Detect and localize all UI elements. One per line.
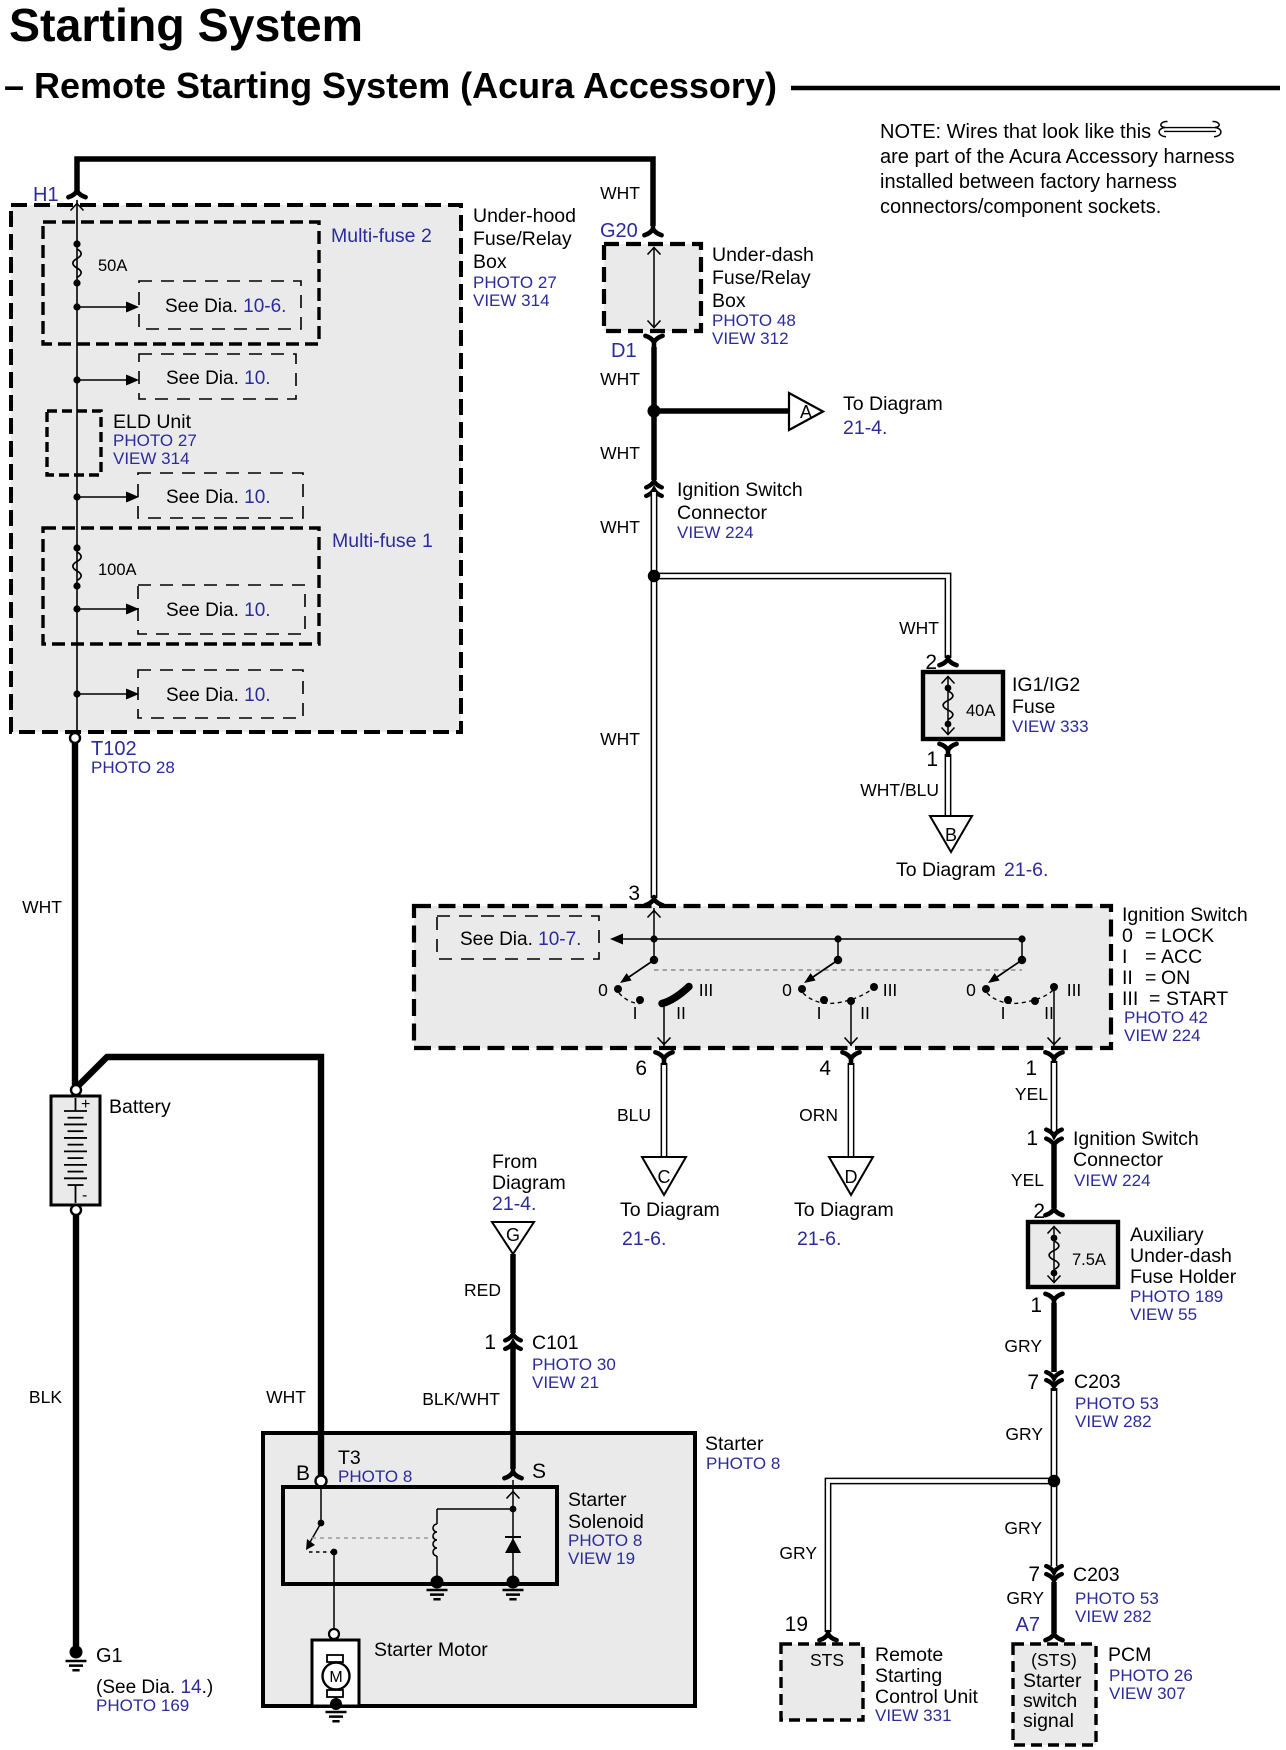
svg-text:VIEW 55: VIEW 55: [1130, 1305, 1197, 1324]
svg-text:I: I: [1001, 1003, 1006, 1023]
svg-text:C203: C203: [1074, 1371, 1121, 1393]
svg-text:Starter Motor: Starter Motor: [374, 1639, 488, 1661]
node: branch to dia 10 (fifth): [73, 690, 80, 697]
svg-text:Ignition Switch: Ignition Switch: [1122, 904, 1248, 926]
svg-text:II: II: [676, 1003, 686, 1023]
svg-text:STS: STS: [810, 1650, 844, 1670]
svg-text:S: S: [532, 1460, 546, 1483]
svg-text:Fuse/Relay: Fuse/Relay: [712, 267, 811, 289]
svg-text:Starting System: Starting System: [9, 0, 363, 51]
battery + terminal: [71, 1085, 81, 1095]
wire: fuse to triangle B (WHT/BLU): [945, 754, 952, 816]
wire: C203 to junction (GRY): [1051, 1388, 1058, 1481]
node: GRY junction: [1048, 1475, 1060, 1487]
connector G20: [644, 227, 661, 235]
svg-text:GRY: GRY: [779, 1543, 817, 1563]
svg-text:Control Unit: Control Unit: [875, 1686, 979, 1708]
note wire sample symbol: [1159, 122, 1221, 137]
svg-text:Connector: Connector: [1073, 1149, 1163, 1171]
svg-text:connectors/component sockets.: connectors/component sockets.: [880, 196, 1161, 218]
svg-text:VIEW 19: VIEW 19: [568, 1549, 635, 1568]
svg-text:I: I: [817, 1003, 822, 1023]
svg-text:RED: RED: [464, 1280, 501, 1300]
svg-text:1: 1: [1030, 1294, 1042, 1317]
see dia 10 box (fourth): [138, 585, 305, 634]
under-dash fuse/relay box: [604, 244, 701, 331]
see dia 10-7 box: [437, 916, 599, 959]
svg-text:– Remote Starting System (Acur: – Remote Starting System (Acura Accessor…: [4, 65, 777, 106]
svg-text:Box: Box: [473, 251, 507, 273]
svg-text:VIEW 282: VIEW 282: [1075, 1412, 1152, 1431]
node: branch to dia 10-6: [73, 303, 80, 310]
svg-text:I: I: [633, 1003, 638, 1023]
svg-text:II=ON: II=ON: [1122, 967, 1190, 989]
svg-text:VIEW 314: VIEW 314: [113, 449, 190, 468]
wire: switch2 output to pin 4: [850, 1004, 852, 1046]
svg-text:Battery: Battery: [109, 1096, 171, 1118]
terminal T102: [70, 733, 80, 743]
svg-text:0: 0: [782, 980, 792, 1000]
svg-text:1: 1: [1025, 1057, 1037, 1080]
wire: aux fuse to C203 (GRY): [1051, 1303, 1057, 1372]
mechanical link dashed line: [654, 969, 1022, 971]
svg-text:Ignition Switch: Ignition Switch: [1073, 1128, 1199, 1150]
svg-text:Fuse: Fuse: [1012, 696, 1055, 718]
svg-text:To Diagram: To Diagram: [843, 393, 943, 415]
svg-text:C203: C203: [1073, 1564, 1120, 1586]
svg-text:0: 0: [966, 980, 976, 1000]
svg-text:PHOTO 8: PHOTO 8: [568, 1531, 642, 1550]
svg-text:ELD Unit: ELD Unit: [113, 411, 192, 433]
svg-text:1: 1: [484, 1331, 496, 1354]
svg-text:See Dia. 10-6.: See Dia. 10-6.: [165, 296, 286, 317]
svg-text:19: 19: [785, 1613, 808, 1636]
connector fuse pin 2: [939, 657, 956, 665]
node: branch to dia 10 (third): [73, 493, 80, 500]
svg-text:III=START: III=START: [1122, 988, 1228, 1010]
svg-text:D: D: [845, 1167, 858, 1187]
svg-text:VIEW 224: VIEW 224: [677, 523, 754, 542]
svg-text:See Dia. 10.: See Dia. 10.: [166, 685, 271, 706]
see dia 10 box (third): [138, 473, 303, 518]
svg-text:Box: Box: [712, 290, 746, 312]
wire: switch3 output to pin 1: [1053, 990, 1055, 1046]
switch wafer 3: [966, 956, 1081, 1023]
svg-text:VIEW 282: VIEW 282: [1075, 1607, 1152, 1626]
svg-text:VIEW 21: VIEW 21: [532, 1373, 599, 1392]
switch wafer 1: [598, 939, 1022, 1023]
svg-text:PHOTO 28: PHOTO 28: [91, 758, 175, 777]
wire: main feed inside box: [76, 200, 78, 734]
svg-text:PCM: PCM: [1108, 1644, 1151, 1666]
IG1/IG2 fuse box: [923, 672, 1003, 739]
svg-text:40A: 40A: [966, 702, 995, 720]
svg-text:III: III: [699, 980, 714, 1000]
svg-text:To Diagram: To Diagram: [794, 1199, 894, 1221]
ground: starter motor: [330, 1698, 342, 1710]
svg-text:Under-dash: Under-dash: [1130, 1245, 1232, 1267]
svg-text:WHT: WHT: [600, 443, 640, 463]
svg-text:6: 6: [635, 1057, 647, 1080]
svg-text:See Dia. 10.: See Dia. 10.: [166, 600, 271, 621]
svg-text:PHOTO 30: PHOTO 30: [532, 1355, 616, 1374]
svg-text:T102: T102: [91, 738, 137, 760]
wire: pin1 to ignition switch connector (YEL): [1051, 1061, 1058, 1134]
svg-text:G1: G1: [96, 1645, 123, 1667]
svg-text:WHT: WHT: [600, 517, 640, 537]
svg-text:See Dia. 10-7.: See Dia. 10-7.: [460, 929, 581, 950]
svg-text:VIEW 333: VIEW 333: [1012, 717, 1089, 736]
svg-text:PHOTO 42: PHOTO 42: [1124, 1008, 1208, 1027]
node: rail dot sw1: [650, 935, 657, 942]
auxiliary under-dash fuse holder box: [1028, 1222, 1118, 1287]
wire: switch1 output to pin 6: [663, 1004, 665, 1046]
svg-text:100A: 100A: [98, 561, 137, 579]
wire: G to C101 (RED): [510, 1254, 516, 1333]
svg-text:Multi-fuse 1: Multi-fuse 1: [332, 530, 433, 552]
svg-text:7: 7: [1027, 1371, 1039, 1394]
terminal S: [510, 1433, 516, 1469]
svg-text:A7: A7: [1016, 1614, 1040, 1636]
triangle A (to diagram 21-4): [789, 393, 823, 430]
svg-text:1: 1: [1026, 1127, 1038, 1150]
svg-text:G: G: [506, 1225, 520, 1245]
svg-text:BLK: BLK: [29, 1387, 62, 1407]
solenoid S branch: [512, 1480, 514, 1580]
svg-text:To Diagram: To Diagram: [896, 859, 996, 881]
fuse 50A: [73, 240, 80, 247]
wire: branch to triangle A: [654, 408, 789, 414]
svg-text:G20: G20: [600, 220, 638, 242]
wire: battery to G1 (BLK): [73, 1215, 79, 1648]
ignition switch connector (inline): [646, 481, 662, 487]
svg-text:III: III: [1067, 980, 1082, 1000]
svg-text:PHOTO 26: PHOTO 26: [1109, 1666, 1193, 1685]
svg-text:installed between factory harn: installed between factory harness: [880, 171, 1177, 193]
node: branch to dia 10 (fourth): [73, 605, 80, 612]
triangle D (to diagram 21-6): [829, 1157, 873, 1195]
starter motor: [327, 1655, 343, 1662]
svg-text:Starter: Starter: [1023, 1670, 1082, 1692]
wire: pin3 entry into switch: [653, 908, 655, 960]
svg-text:C: C: [658, 1167, 671, 1187]
svg-text:VIEW 307: VIEW 307: [1109, 1684, 1186, 1703]
svg-text:PHOTO 27: PHOTO 27: [113, 431, 197, 450]
svg-text:PHOTO 53: PHOTO 53: [1075, 1589, 1159, 1608]
wire: battery+ branch to starter B (WHT): [77, 1057, 321, 1476]
battery - terminal: [71, 1205, 81, 1215]
ground G1: [70, 1646, 83, 1659]
connector fuse pin 1: [939, 744, 956, 756]
ignition switch box: [414, 906, 1111, 1048]
node: harness junction: [648, 570, 660, 582]
starter box: [263, 1433, 695, 1706]
switch wafer 2: [782, 956, 897, 1023]
svg-text:7.5A: 7.5A: [1072, 1251, 1106, 1269]
svg-text:NOTE: Wires that look like thi: NOTE: Wires that look like this: [880, 121, 1151, 143]
svg-text:0: 0: [598, 980, 608, 1000]
svg-text:are part of the Acura Accessor: are part of the Acura Accessory harness: [880, 146, 1235, 168]
ground: diode: [507, 1576, 520, 1589]
svg-text:GRY: GRY: [1004, 1518, 1042, 1538]
svg-text:switch: switch: [1023, 1690, 1077, 1712]
node: junction at A branch: [648, 405, 661, 418]
svg-text:A: A: [800, 402, 812, 422]
svg-text:GRY: GRY: [1004, 1336, 1042, 1356]
wire: T102 to battery (WHT): [72, 743, 78, 1085]
svg-text:21-4.: 21-4.: [492, 1193, 536, 1215]
svg-text:Multi-fuse 2: Multi-fuse 2: [331, 225, 432, 247]
svg-text:PHOTO 27: PHOTO 27: [473, 273, 557, 292]
node: rail dot sw2: [834, 935, 841, 942]
svg-text:PHOTO 53: PHOTO 53: [1075, 1394, 1159, 1413]
svg-text:Solenoid: Solenoid: [568, 1511, 644, 1533]
svg-text:21-6.: 21-6.: [797, 1228, 841, 1250]
svg-text:PHOTO 8: PHOTO 8: [338, 1467, 412, 1486]
svg-text:WHT: WHT: [266, 1387, 306, 1407]
svg-text:C101: C101: [532, 1332, 579, 1354]
ground: coil: [431, 1576, 444, 1589]
svg-text:WHT: WHT: [22, 897, 62, 917]
PCM box: [1013, 1644, 1096, 1745]
svg-text:Starter: Starter: [568, 1489, 627, 1511]
svg-text:IG1/IG2: IG1/IG2: [1012, 674, 1080, 696]
svg-text:II: II: [1044, 1003, 1054, 1023]
svg-text:Auxiliary: Auxiliary: [1130, 1224, 1204, 1246]
svg-text:M: M: [329, 1669, 342, 1686]
svg-text:+: +: [81, 1096, 90, 1113]
svg-text:-: -: [82, 1187, 87, 1204]
triangle C (to diagram 21-6): [642, 1157, 686, 1195]
svg-text:YEL: YEL: [1015, 1084, 1048, 1104]
svg-text:VIEW 331: VIEW 331: [875, 1706, 952, 1725]
mechanical link dashed (solenoid): [312, 1537, 433, 1539]
svg-text:1: 1: [926, 748, 938, 771]
svg-text:D1: D1: [611, 340, 637, 362]
wire: pin6 to triangle C (BLU): [661, 1063, 668, 1157]
svg-text:Under-dash: Under-dash: [712, 244, 814, 266]
svg-text:H1: H1: [33, 184, 59, 206]
header rule: [791, 86, 1280, 91]
svg-text:Fuse/Relay: Fuse/Relay: [473, 228, 572, 250]
wire: switch feed rail with arrow to see dia 10-7: [620, 938, 1022, 940]
svg-text:Under-hood: Under-hood: [473, 205, 576, 227]
svg-text:Connector: Connector: [677, 502, 767, 524]
see dia 10 box (second): [139, 354, 296, 399]
svg-text:WHT: WHT: [600, 369, 640, 389]
under-hood fuse/relay box: [11, 205, 461, 732]
svg-text:BLK/WHT: BLK/WHT: [422, 1389, 500, 1409]
svg-text:Ignition Switch: Ignition Switch: [677, 479, 803, 501]
starter solenoid box: [283, 1487, 557, 1584]
triangle B (to diagram 21-6): [930, 816, 972, 852]
solenoid contact from B: [320, 1487, 322, 1522]
svg-text:WHT: WHT: [600, 729, 640, 749]
svg-text:50A: 50A: [98, 257, 127, 275]
svg-text:Starting: Starting: [875, 1665, 942, 1687]
see dia 10-6 box: [139, 281, 301, 329]
svg-text:21-6.: 21-6.: [1004, 859, 1048, 881]
svg-text:21-6.: 21-6.: [622, 1228, 666, 1250]
remote starting control unit box: [781, 1644, 863, 1720]
wire: D1 to node A (WHT): [651, 347, 657, 412]
svg-text:Starter: Starter: [705, 1433, 764, 1455]
ELD unit box: [47, 411, 101, 475]
svg-text:VIEW 224: VIEW 224: [1074, 1171, 1151, 1190]
wire: accessory harness junction to IG1/IG2 fuse branch (WHT): [654, 576, 948, 658]
svg-text:See Dia. 10.: See Dia. 10.: [166, 487, 271, 508]
wire: accessory harness down to junction (WHT): [651, 491, 658, 576]
fuse 100A: [73, 544, 80, 551]
node: branch to dia 10 (second): [73, 376, 80, 383]
svg-text:VIEW 312: VIEW 312: [712, 329, 789, 348]
svg-text:III: III: [883, 980, 898, 1000]
svg-text:B: B: [945, 825, 957, 845]
svg-text:(See Dia. 14.): (See Dia. 14.): [96, 1677, 213, 1698]
terminal B: [318, 1433, 324, 1476]
node: rail dot sw3: [1018, 935, 1025, 942]
wire: junction down to C203 lower (GRY): [1051, 1477, 1058, 1566]
wire: C203 to PCM A7 (GRY): [1051, 1582, 1057, 1633]
wire: node A to ignition switch connector (WHT): [651, 416, 657, 480]
svg-text:YEL: YEL: [1011, 1170, 1044, 1190]
svg-text:VIEW 224: VIEW 224: [1124, 1026, 1201, 1045]
wire: H1 to G20 (WHT) top run: [77, 159, 653, 226]
svg-text:Diagram: Diagram: [492, 1172, 566, 1194]
see dia 10 box (fifth): [138, 670, 303, 718]
svg-text:WHT: WHT: [899, 618, 939, 638]
diode: [505, 1536, 521, 1538]
svg-text:2: 2: [1033, 1200, 1045, 1223]
wire: junction branch to remote starting control unit (GRY): [828, 1481, 1054, 1632]
svg-text:WHT/BLU: WHT/BLU: [860, 780, 939, 800]
svg-text:II: II: [860, 1003, 870, 1023]
starter motor box: [312, 1640, 359, 1706]
svg-text:3: 3: [628, 882, 640, 905]
svg-text:GRY: GRY: [1006, 1588, 1044, 1608]
multi-fuse 2 box: [43, 222, 319, 344]
multi-fuse 1 box: [43, 528, 319, 644]
svg-text:WHT: WHT: [600, 183, 640, 203]
svg-text:BLU: BLU: [617, 1105, 651, 1125]
svg-text:From: From: [492, 1151, 538, 1173]
svg-text:GRY: GRY: [1005, 1424, 1043, 1444]
svg-text:VIEW 314: VIEW 314: [473, 291, 550, 310]
svg-text:See Dia. 10.: See Dia. 10.: [166, 368, 271, 389]
svg-text:PHOTO 189: PHOTO 189: [1130, 1287, 1223, 1306]
svg-text:(STS): (STS): [1031, 1650, 1077, 1670]
svg-text:PHOTO 169: PHOTO 169: [96, 1696, 189, 1715]
svg-text:PHOTO 8: PHOTO 8: [706, 1454, 780, 1473]
solenoid coil: [437, 1508, 513, 1510]
svg-text:Fuse Holder: Fuse Holder: [1130, 1266, 1237, 1288]
wire: accessory harness long run to pin 3 (WHT): [651, 572, 658, 898]
svg-text:PHOTO 48: PHOTO 48: [712, 311, 796, 330]
svg-text:T3: T3: [338, 1447, 361, 1469]
wire: pin4 to triangle D (ORN): [848, 1063, 855, 1157]
svg-text:Remote: Remote: [875, 1644, 943, 1666]
connector D1: [645, 336, 662, 348]
svg-text:7: 7: [1028, 1563, 1040, 1586]
battery: [51, 1096, 100, 1205]
svg-text:21-4.: 21-4.: [843, 417, 887, 439]
svg-text:signal: signal: [1023, 1710, 1074, 1732]
wire: C101 to starter S (BLK/WHT): [510, 1345, 516, 1469]
wire: contact to starter motor: [333, 1552, 335, 1629]
wire: connector to aux fuse pin 2 (YEL): [1051, 1145, 1057, 1208]
connector H1: [68, 189, 85, 197]
svg-text:B: B: [296, 1462, 310, 1485]
svg-text:ORN: ORN: [799, 1105, 838, 1125]
svg-text:To Diagram: To Diagram: [620, 1199, 720, 1221]
svg-text:4: 4: [819, 1057, 831, 1080]
